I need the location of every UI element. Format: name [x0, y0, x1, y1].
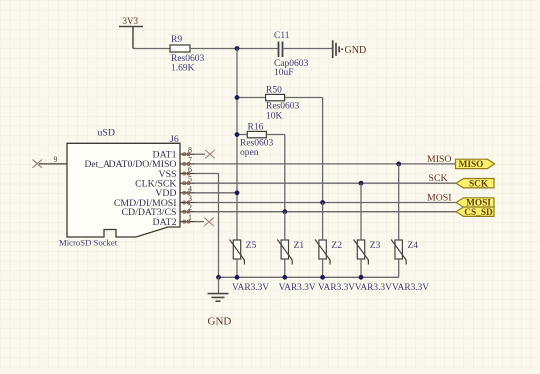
junction node VDD — [235, 190, 240, 195]
wire VDD to 3V3 column — [195, 192, 238, 194]
svg-text:1.69K: 1.69K — [171, 63, 195, 73]
svg-text:SCK: SCK — [469, 179, 489, 189]
wire ground rail — [219, 276, 399, 278]
svg-text:7: 7 — [188, 155, 192, 164]
ground GND top right — [333, 40, 366, 58]
wire MISO row — [195, 163, 456, 165]
junction node MOSI/Z2 — [320, 200, 325, 205]
wire Z2 column — [322, 203, 324, 278]
svg-text:VAR3.3V: VAR3.3V — [355, 283, 392, 293]
pin 9 Det_A — [39, 155, 110, 170]
svg-text:VAR3.3V: VAR3.3V — [232, 283, 269, 293]
svg-text:Det_A: Det_A — [85, 159, 111, 170]
resistor R50 — [237, 85, 323, 121]
port CS_SD — [456, 207, 494, 218]
connector J6 uSD body — [59, 128, 180, 248]
svg-text:Res0603: Res0603 — [266, 102, 300, 112]
wire 3V3 to R9 — [133, 48, 170, 50]
ground GND bottom — [208, 277, 232, 327]
resistor R16 — [237, 123, 285, 158]
svg-text:3V3: 3V3 — [123, 16, 139, 26]
svg-text:Z2: Z2 — [331, 241, 342, 251]
svg-text:GND: GND — [345, 45, 367, 56]
svg-text:SCK: SCK — [429, 173, 448, 184]
junction node rail/Z1 — [282, 275, 287, 280]
svg-text:C11: C11 — [274, 31, 290, 41]
wire DAT2 stub — [195, 221, 205, 223]
wire C11 to GND — [284, 48, 333, 50]
varistor Z4 — [391, 240, 418, 265]
port SCK — [456, 179, 494, 190]
wire Z3 column — [360, 183, 362, 277]
wire CS row — [195, 211, 457, 213]
wire DAT1 stub — [195, 153, 206, 155]
svg-text:10K: 10K — [266, 112, 283, 122]
svg-text:DAT2: DAT2 — [153, 217, 177, 228]
junction node R16 left — [235, 132, 240, 137]
svg-text:6: 6 — [188, 165, 192, 174]
svg-text:open: open — [240, 148, 259, 158]
pin 3 CMD/DI/MOSI — [114, 194, 195, 209]
svg-text:R9: R9 — [171, 35, 182, 45]
junction node SCK/Z3 — [359, 181, 364, 186]
junction node CS/Z1 — [282, 209, 287, 214]
junction node rail/GND — [216, 275, 221, 280]
junction node top — [235, 46, 240, 51]
no-connect X DAT2 — [204, 218, 213, 226]
wire Z1 column — [284, 212, 286, 278]
svg-text:Z1: Z1 — [294, 241, 305, 251]
wire Z5 bottom — [236, 259, 238, 277]
pin 8 DAT1 — [153, 146, 195, 161]
svg-text:MISO: MISO — [459, 160, 484, 170]
pin 5 CLK/SCK — [135, 175, 194, 190]
junction node rail/Z2 — [320, 275, 325, 280]
no-connect X pin 9 — [33, 160, 43, 168]
svg-text:2: 2 — [188, 203, 192, 212]
svg-text:R16: R16 — [248, 123, 264, 133]
wire VSS to ground rail — [195, 174, 219, 278]
pin 1 DAT2 — [153, 213, 195, 228]
svg-text:VAR3.3V: VAR3.3V — [279, 283, 316, 293]
svg-text:uSD: uSD — [98, 128, 115, 139]
svg-text:GND: GND — [208, 316, 232, 328]
svg-text:MicroSD Socket: MicroSD Socket — [59, 238, 118, 248]
capacitor C11 — [274, 31, 309, 78]
svg-text:J6: J6 — [170, 134, 179, 145]
wire R9 to C11 — [190, 48, 278, 50]
svg-text:10uF: 10uF — [274, 68, 294, 78]
varistor Z1 — [277, 240, 304, 265]
pin 6 VSS — [159, 165, 195, 180]
wire main 3V3 column — [236, 49, 238, 241]
svg-text:Z3: Z3 — [370, 241, 381, 251]
svg-text:MOSI: MOSI — [427, 192, 452, 203]
pin 7 DAT0/DO/MISO — [108, 155, 194, 170]
svg-text:9: 9 — [54, 155, 58, 164]
power port 3V3 — [119, 16, 143, 49]
junction node rail/Z3 — [359, 275, 364, 280]
svg-text:CS_SD: CS_SD — [464, 208, 493, 218]
svg-text:8: 8 — [188, 146, 192, 155]
svg-text:4: 4 — [188, 184, 192, 193]
varistor Z2 — [315, 240, 342, 265]
svg-text:R50: R50 — [266, 85, 282, 95]
junction node R50 left — [235, 95, 240, 100]
junction node rail/Z5 — [235, 275, 240, 280]
resistor R9 — [170, 35, 205, 74]
port MISO — [456, 159, 495, 170]
wire Z4 column — [398, 164, 400, 277]
wire R50 down column — [322, 98, 324, 203]
no-connect X DAT1 — [205, 150, 214, 158]
svg-text:5: 5 — [188, 175, 192, 184]
wire MOSI row — [195, 202, 457, 204]
wire SCK row — [195, 182, 457, 184]
varistor Z5 — [230, 240, 257, 265]
varistor Z3 — [354, 240, 381, 265]
wire R16 down column — [284, 135, 286, 212]
svg-text:1: 1 — [188, 213, 192, 222]
pin 2 CD/DAT3/CS — [122, 203, 195, 218]
svg-text:Z5: Z5 — [246, 241, 257, 251]
svg-text:MISO: MISO — [427, 154, 452, 165]
pin 4 VDD — [155, 184, 194, 199]
svg-text:Z4: Z4 — [408, 241, 419, 251]
svg-text:3: 3 — [188, 194, 192, 203]
svg-text:VAR3.3V: VAR3.3V — [392, 283, 429, 293]
junction node MISO/Z4 — [396, 162, 401, 167]
port MOSI — [456, 198, 494, 209]
svg-text:VAR3.3V: VAR3.3V — [318, 283, 355, 293]
